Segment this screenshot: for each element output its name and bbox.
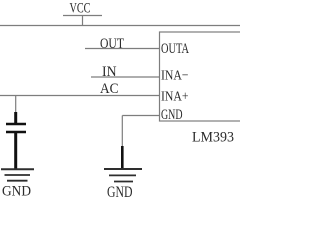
svg-text:OUT: OUT (100, 36, 124, 52)
ground middle (104, 169, 142, 201)
wire AC junction drop to capacitor (15, 96, 17, 114)
capacitor C1 (6, 112, 26, 169)
wire IN to INA- (91, 76, 159, 78)
wire OUT to OUTA (85, 48, 159, 50)
svg-text:GND: GND (107, 184, 133, 200)
svg-text:GND: GND (161, 107, 183, 123)
svg-text:INA−: INA− (161, 68, 189, 83)
wire VCC rail (0, 25, 240, 27)
wire GND pin to mid ground: horizontal (122, 115, 159, 117)
lead mid ground thick (121, 146, 124, 168)
wire GND pin to mid ground: vertical (121, 116, 123, 148)
svg-text:OUTA: OUTA (161, 41, 189, 57)
svg-text:GND: GND (2, 184, 31, 200)
svg-text:INA+: INA+ (161, 89, 189, 104)
ground left (1, 169, 34, 199)
wire AC to INA+ (0, 95, 159, 97)
svg-text:AC: AC (100, 81, 119, 97)
svg-text:VCC: VCC (70, 1, 91, 17)
svg-text:LM393: LM393 (192, 129, 234, 145)
power symbol VCC (63, 1, 102, 26)
op-amp U1 LM393 body (160, 32, 243, 121)
